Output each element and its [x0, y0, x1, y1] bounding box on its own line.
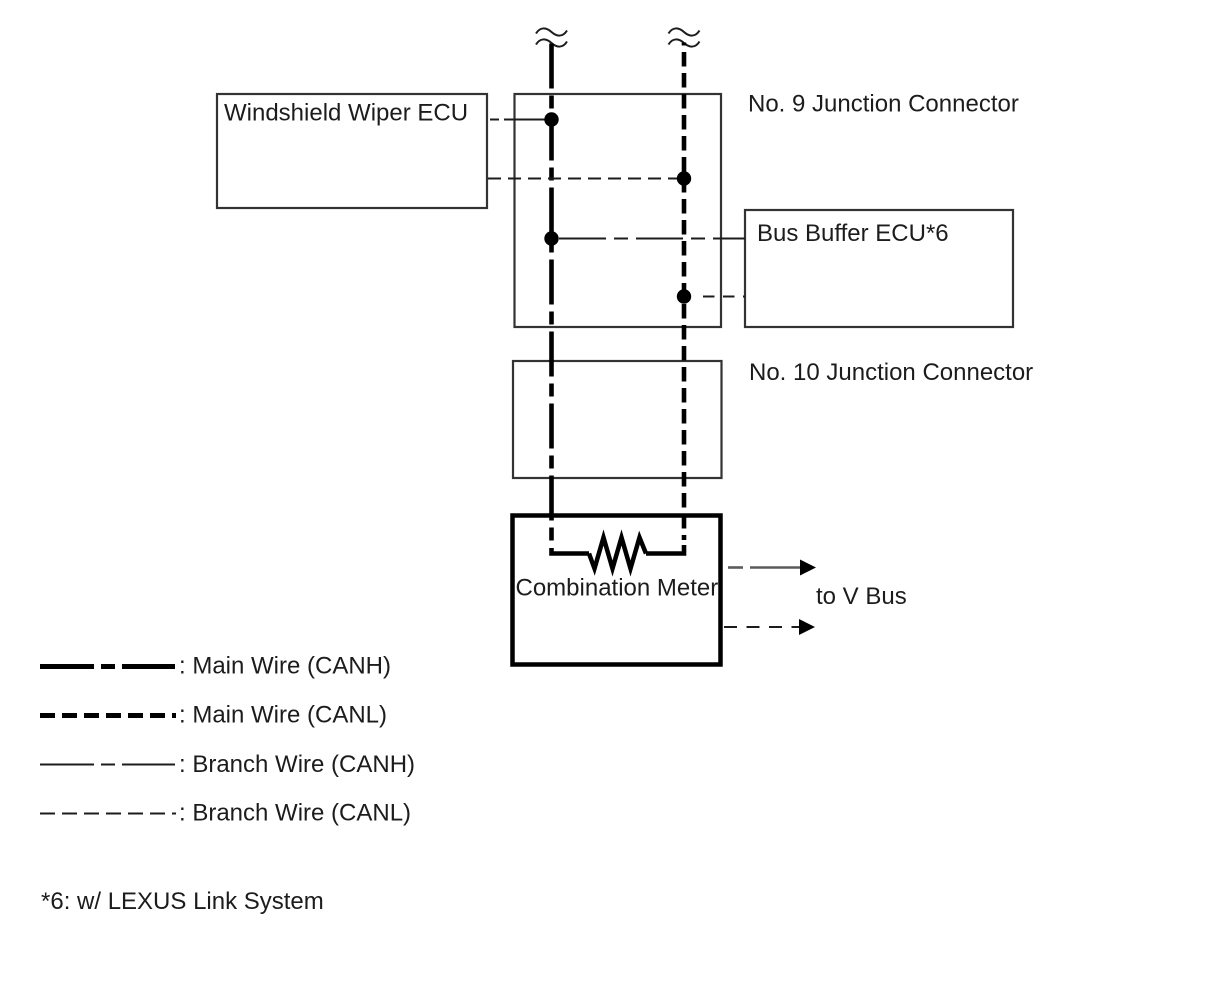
svg-text:to V Bus: to V Bus [816, 583, 907, 610]
svg-text:: Main Wire (CANL): : Main Wire (CANL) [179, 702, 387, 729]
branch wire CANL from Windshield Wiper ECU [488, 178, 678, 180]
legend main wire CANL sample [40, 713, 176, 718]
svg-text:No. 9 Junction Connector: No. 9 Junction Connector [748, 91, 1019, 118]
main wire CANL corner into meter [646, 545, 684, 554]
resistor (terminating) in combination meter [589, 538, 646, 569]
svg-text:No. 10 Junction Connector: No. 10 Junction Connector [749, 359, 1033, 386]
to V Bus dashed arrow (CANL) [724, 619, 815, 635]
junction node on CANH at wiper [544, 112, 558, 126]
Windshield Wiper ECU box [217, 94, 487, 208]
break symbol left [536, 28, 567, 46]
svg-text:Bus Buffer ECU*6: Bus Buffer ECU*6 [757, 220, 949, 247]
svg-text:Windshield Wiper ECU: Windshield Wiper ECU [224, 100, 468, 127]
junction node on CANL at wiper [677, 171, 691, 185]
legend branch wire CANH sample [40, 764, 175, 766]
branch wire CANH from Windshield Wiper ECU [490, 119, 546, 121]
svg-text:: Branch Wire (CANH): : Branch Wire (CANH) [179, 751, 415, 778]
svg-text:: Main Wire (CANH): : Main Wire (CANH) [179, 653, 391, 680]
junction node on CANH at bus buffer [544, 231, 558, 245]
No. 10 Junction Connector box [513, 361, 722, 478]
junction node on CANL at bus buffer [677, 289, 691, 303]
svg-text:Combination Meter: Combination Meter [516, 575, 719, 602]
svg-text:: Branch Wire (CANL): : Branch Wire (CANL) [179, 800, 411, 827]
Bus Buffer ECU box [745, 210, 1013, 327]
svg-text:*6: w/ LEXUS Link System: *6: w/ LEXUS Link System [41, 888, 324, 915]
No. 9 Junction Connector box [515, 94, 722, 327]
branch wire CANL to Bus Buffer ECU [703, 296, 745, 298]
main wire CANL vertical [682, 43, 687, 541]
main wire CANH corner into meter [552, 548, 590, 554]
main wire CANH vertical [549, 44, 554, 544]
break symbol right [669, 28, 700, 46]
legend branch wire CANL sample [40, 813, 176, 815]
Combination Meter box [513, 516, 721, 665]
branch wire CANH to Bus Buffer ECU [559, 238, 745, 240]
legend main wire CANH sample [40, 664, 175, 669]
to V Bus solid arrow (CANH) [728, 560, 816, 576]
